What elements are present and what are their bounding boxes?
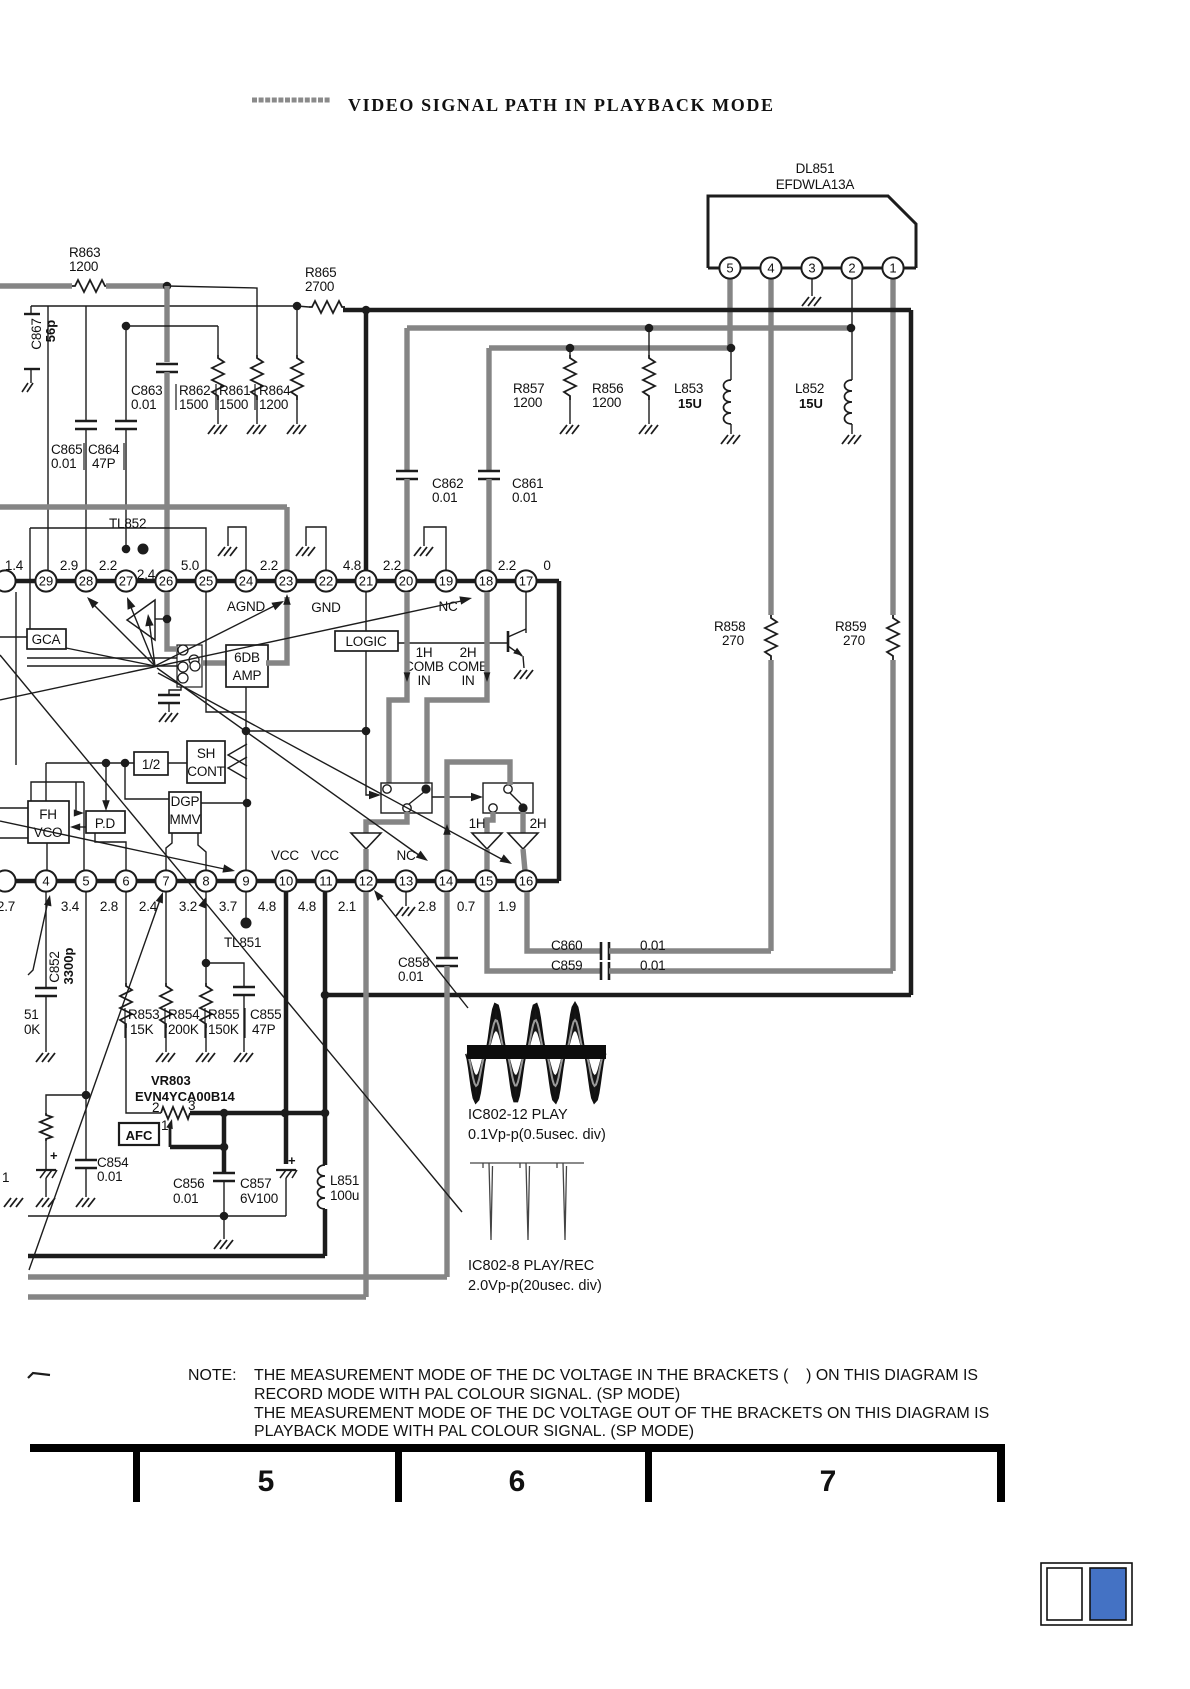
svg-text:3.7: 3.7 bbox=[219, 899, 237, 914]
wire DGP MMV to pin 7 bbox=[166, 833, 172, 871]
wire 1/2 to SH CONT bbox=[168, 762, 187, 764]
gray stub cluster to 6DB AMP bbox=[202, 660, 226, 665]
svg-text:28: 28 bbox=[79, 574, 93, 589]
svg-text:6DB: 6DB bbox=[234, 650, 260, 665]
svg-text:23: 23 bbox=[279, 574, 293, 589]
wire gray pin18 column with C861 bbox=[486, 348, 491, 470]
thick wire down to C856 bbox=[222, 1113, 227, 1172]
zigzag at SH CONT right bbox=[228, 744, 247, 766]
svg-text:R856: R856 bbox=[592, 381, 623, 396]
wire pin11 thick column down bbox=[323, 892, 328, 1165]
wire pin5 long column bbox=[85, 892, 87, 1159]
wire DGP MMV to pin 8 dogleg bbox=[198, 833, 206, 871]
svg-text:THE MEASUREMENT MODE OF THE DC: THE MEASUREMENT MODE OF THE DC VOLTAGE O… bbox=[254, 1405, 989, 1422]
svg-text:VCO: VCO bbox=[34, 825, 63, 840]
pin 25 of TL852 bbox=[195, 570, 216, 591]
svg-text:+: + bbox=[288, 1153, 296, 1168]
thick black bottom-left rail bbox=[28, 1254, 325, 1259]
triangle amp above pin 15 bbox=[472, 833, 502, 849]
node L852 top bbox=[847, 324, 856, 333]
svg-text:DGP: DGP bbox=[171, 794, 200, 809]
gray line2 y348 from pin18 column to L853 bbox=[489, 345, 731, 350]
svg-text:R862: R862 bbox=[179, 383, 210, 398]
svg-text:2.8: 2.8 bbox=[418, 899, 436, 914]
ground below C855 bbox=[234, 1053, 253, 1062]
ground below C856 bbox=[214, 1240, 233, 1249]
svg-text:150K: 150K bbox=[208, 1022, 239, 1037]
node junction at R863 output bbox=[163, 282, 172, 291]
resistor R853 bbox=[120, 983, 132, 1028]
fan arrow to pin 27 bbox=[128, 600, 155, 666]
pin 14 of TL851 bbox=[435, 870, 456, 891]
wire: gray column from C863 to pin 26 bbox=[164, 507, 169, 571]
inductor L851 bbox=[318, 1165, 326, 1209]
wire DGP MMV to dot on pin9 column bbox=[201, 802, 247, 804]
block 1/2 divider box bbox=[134, 752, 168, 775]
waveform photo IC802-12 bbox=[467, 1005, 606, 1101]
svg-text:0.1Vp-p(0.5usec. div): 0.1Vp-p(0.5usec. div) bbox=[468, 1127, 606, 1143]
svg-text:16: 16 bbox=[519, 874, 533, 889]
ground below R856 bbox=[639, 425, 658, 434]
svg-text:2.4: 2.4 bbox=[137, 567, 156, 582]
thick rail from VR803 wiper bbox=[170, 1145, 224, 1150]
up arrow on pin14 riser bbox=[443, 824, 451, 835]
svg-text:R853: R853 bbox=[128, 1007, 159, 1022]
wire pin21 to LOGIC bbox=[365, 592, 367, 631]
block SH CONT box bbox=[187, 741, 225, 783]
wire pin 25 inner column bbox=[206, 592, 246, 712]
arrow to pin 8 on leader bbox=[198, 896, 209, 909]
branch to AFC filter resistor bbox=[46, 1095, 86, 1113]
pin 6 of TL851 bbox=[115, 870, 136, 891]
svg-text:R859: R859 bbox=[835, 619, 866, 634]
svg-text:VIDEO SIGNAL PATH IN PLAYBACK: VIDEO SIGNAL PATH IN PLAYBACK MODE bbox=[348, 95, 775, 115]
wire dot b to DGP MMV bbox=[125, 763, 169, 799]
gray arrowhead into pin 23 bbox=[283, 594, 291, 605]
wire LOGIC to transistor base bbox=[398, 642, 508, 644]
svg-text:0.01: 0.01 bbox=[640, 958, 665, 973]
svg-text:2.1: 2.1 bbox=[338, 899, 356, 914]
electrolytic cap symbol below resistor bbox=[45, 1158, 47, 1170]
svg-text:26: 26 bbox=[159, 574, 173, 589]
resistor R863 bbox=[72, 280, 108, 292]
svg-text:1.9: 1.9 bbox=[498, 899, 516, 914]
svg-text:1200: 1200 bbox=[513, 395, 542, 410]
legend: gray video-path sample line bbox=[252, 98, 330, 103]
svg-text:200K: 200K bbox=[168, 1022, 199, 1037]
svg-text:56p: 56p bbox=[43, 320, 58, 342]
zone scale bar bbox=[30, 1444, 1005, 1452]
svg-text:0.01: 0.01 bbox=[432, 490, 457, 505]
switch SB box bbox=[483, 783, 533, 813]
wire LOGIC down to switch arrow bbox=[366, 651, 376, 795]
wire FH VCO to pin 4 bbox=[46, 843, 48, 871]
gray column pin14 with C858 bbox=[444, 892, 449, 957]
svg-text:1200: 1200 bbox=[592, 395, 621, 410]
capacitor C864 column to pin 27 bbox=[122, 322, 131, 331]
ground at page edge bbox=[4, 1198, 23, 1207]
svg-text:0.01: 0.01 bbox=[97, 1169, 122, 1184]
fan arrow to pin 16 bbox=[158, 673, 507, 862]
node rail pin11 column bbox=[321, 1109, 330, 1118]
pin 4 of DL851 bbox=[760, 257, 781, 278]
wire pin6 down to R853 bbox=[125, 892, 127, 983]
svg-text:IC802-12 PLAY: IC802-12 PLAY bbox=[468, 1107, 568, 1123]
chip outer box bbox=[1041, 1563, 1132, 1625]
6DB AMP block box bbox=[226, 645, 268, 687]
node feeding C855 bbox=[202, 959, 211, 968]
svg-text:C855: C855 bbox=[250, 1007, 281, 1022]
partial pin at page edge bottom row bbox=[0, 870, 16, 891]
wire: thin branch right from junction to R861 column bbox=[167, 286, 257, 355]
thick black right border down bbox=[909, 310, 914, 995]
svg-text:R857: R857 bbox=[513, 381, 544, 396]
pin 13 of TL851 bbox=[395, 870, 416, 891]
svg-text:1200: 1200 bbox=[69, 259, 98, 274]
svg-text:PLAYBACK MODE WITH PAL COLOUR: PLAYBACK MODE WITH PAL COLOUR SIGNAL. (S… bbox=[254, 1423, 694, 1440]
resistor R855 bbox=[205, 963, 207, 983]
ground below C854 bbox=[76, 1198, 95, 1207]
dash mark left margin bbox=[28, 1373, 50, 1378]
triangle amp above pin 12 bbox=[351, 833, 381, 849]
pin 2 of DL851 bbox=[841, 257, 862, 278]
gray drop from bus into pin 23 bbox=[284, 507, 289, 570]
svg-text:5: 5 bbox=[82, 874, 89, 889]
svg-text:R858: R858 bbox=[714, 619, 745, 634]
ground below R862 bbox=[208, 425, 227, 434]
resistor R865 bbox=[309, 301, 345, 313]
pin 9 of TL851 bbox=[235, 870, 256, 891]
wire: DL851 pin4 gray column down to R858 bbox=[768, 279, 773, 615]
LOGIC block box bbox=[335, 631, 398, 651]
svg-text:1200: 1200 bbox=[259, 397, 288, 412]
thin arrow from switch A to switch B bbox=[432, 796, 476, 798]
svg-text:0.01: 0.01 bbox=[131, 397, 156, 412]
svg-text:4.8: 4.8 bbox=[298, 899, 316, 914]
wire pin9 to TL851 test point bbox=[245, 892, 247, 921]
wire gray pin20 column with C862 bbox=[404, 328, 409, 470]
node L853 top bbox=[727, 344, 736, 353]
pin 21 of TL852 bbox=[355, 570, 376, 591]
capacitor C852 bbox=[35, 987, 57, 990]
inductor L852 bbox=[845, 380, 853, 424]
wire node to C855 bbox=[206, 963, 244, 986]
IC right edge bbox=[557, 581, 562, 881]
svg-text:2: 2 bbox=[848, 261, 855, 276]
ground below R861 bbox=[247, 425, 266, 434]
leader GCA to fan point bbox=[66, 648, 155, 666]
svg-text:MMV: MMV bbox=[170, 812, 201, 827]
resistor in AFC filter bbox=[40, 1113, 52, 1141]
svg-text:4: 4 bbox=[42, 874, 49, 889]
wire FH VCO loop over the top bbox=[31, 782, 84, 801]
wire: gray from R863 to junction bbox=[106, 283, 167, 288]
block DGP MMV box bbox=[169, 792, 201, 833]
gray path SB right contact to amp above pin16 bbox=[520, 812, 525, 833]
wire R853 to VR803 terminal 2 bbox=[126, 1028, 161, 1113]
svg-text:L853: L853 bbox=[674, 381, 703, 396]
svg-text:15U: 15U bbox=[799, 396, 823, 411]
svg-text:0.01: 0.01 bbox=[173, 1191, 198, 1206]
pin 19 of TL852 bbox=[435, 570, 456, 591]
node below 6DB AMP bbox=[242, 727, 251, 736]
ground below C852 bbox=[36, 1053, 55, 1062]
pin 29 of TL852 bbox=[35, 570, 56, 591]
svg-text:C854: C854 bbox=[97, 1155, 129, 1170]
thick black bus from R865 to right border bbox=[343, 308, 911, 313]
wire: DL851 pin1 gray column down to R859 bbox=[890, 279, 895, 615]
svg-text:L851: L851 bbox=[330, 1173, 359, 1188]
svg-text:C862: C862 bbox=[432, 476, 463, 491]
transistor Q below pin 17 bbox=[525, 592, 527, 633]
svg-text:4.8: 4.8 bbox=[258, 899, 276, 914]
pin 4 of TL851 bbox=[35, 870, 56, 891]
svg-text:2.2: 2.2 bbox=[383, 558, 401, 573]
leader waveform IC802-12 to pin 12 bbox=[377, 893, 468, 1008]
resistor R856 bbox=[648, 328, 650, 355]
fan arrow to pin 14 bbox=[157, 668, 423, 858]
wire: gray video path into R863 bbox=[0, 283, 72, 288]
leader waveform IC802-8 to pin 8 bbox=[0, 655, 462, 1212]
pin 20 of TL852 bbox=[395, 570, 416, 591]
node junction feeding R864 bbox=[293, 302, 302, 311]
svg-text:1: 1 bbox=[2, 1170, 9, 1185]
svg-text:EFDWLA13A: EFDWLA13A bbox=[776, 177, 855, 192]
waveform photo IC802-8 sync pulses bbox=[470, 1163, 584, 1240]
leader diagonal through fan to pin 18 bbox=[0, 600, 466, 700]
svg-text:RECORD MODE WITH PAL COLOUR SI: RECORD MODE WITH PAL COLOUR SIGNAL. (SP … bbox=[254, 1386, 680, 1403]
label separators bbox=[124, 1008, 126, 1038]
delay line DL851 outline bbox=[708, 196, 916, 268]
pin 16 of TL851 bbox=[515, 870, 536, 891]
capacitor C865 with column from y306 to pin 28 bbox=[85, 306, 87, 420]
partial pin at page edge top row bbox=[0, 570, 16, 591]
wire: thin bus y306 from pin29 column to R865 bbox=[47, 306, 49, 581]
wire into P.D left with arrow bbox=[75, 782, 77, 813]
svg-text:0.7: 0.7 bbox=[457, 899, 475, 914]
svg-text:AGND: AGND bbox=[227, 599, 266, 614]
resistor R854 bbox=[160, 983, 172, 1028]
svg-text:C856: C856 bbox=[173, 1176, 204, 1191]
pin 11 of TL851 bbox=[315, 870, 336, 891]
label separator lines bbox=[83, 443, 85, 470]
ground bracket above pin 22 bbox=[306, 527, 326, 571]
wire 6DB AMP down to dot bbox=[245, 687, 247, 731]
svg-text:25: 25 bbox=[199, 574, 213, 589]
svg-text:0.01: 0.01 bbox=[398, 969, 423, 984]
svg-text:C857: C857 bbox=[240, 1176, 271, 1191]
svg-text:27: 27 bbox=[119, 574, 133, 589]
resistor R862 bbox=[212, 355, 224, 400]
capacitor C867 (page edge) bbox=[24, 313, 40, 315]
pin 5 of TL851 bbox=[75, 870, 96, 891]
arrow on 2H comb input bbox=[484, 672, 491, 682]
ground below R864 bbox=[287, 425, 306, 434]
pin 5 of DL851 bbox=[719, 257, 740, 278]
svg-text:2.2: 2.2 bbox=[498, 558, 516, 573]
svg-text:1500: 1500 bbox=[179, 397, 208, 412]
transistor cluster box (GCA amps) bbox=[177, 645, 202, 687]
gray rail from pin12 column bbox=[363, 892, 368, 1297]
pin 7 of TL851 bbox=[155, 870, 176, 891]
wire dot to ground bbox=[223, 1216, 225, 1239]
gray comb path from pin 18 to switch A bbox=[427, 592, 487, 783]
svg-text:2: 2 bbox=[152, 1100, 159, 1115]
svg-text:21: 21 bbox=[359, 574, 373, 589]
svg-text:13: 13 bbox=[399, 874, 413, 889]
inductor L853 bbox=[730, 348, 732, 380]
svg-text:C865: C865 bbox=[51, 442, 82, 457]
svg-text:VR803: VR803 bbox=[151, 1073, 191, 1088]
svg-text:R863: R863 bbox=[69, 245, 100, 260]
arrow on 1H comb input bbox=[404, 672, 411, 682]
wire horizontal y731 bbox=[246, 730, 366, 732]
svg-text:51: 51 bbox=[24, 1007, 39, 1022]
svg-text:2H: 2H bbox=[460, 645, 477, 660]
svg-text:NC: NC bbox=[438, 599, 458, 614]
wire pin9 column through IC bbox=[245, 731, 247, 803]
svg-text:47P: 47P bbox=[92, 456, 116, 471]
svg-text:5: 5 bbox=[726, 261, 733, 276]
svg-text:8: 8 bbox=[202, 874, 209, 889]
svg-text:THE MEASUREMENT MODE OF THE DC: THE MEASUREMENT MODE OF THE DC VOLTAGE I… bbox=[254, 1367, 978, 1384]
gray bus above IC top edge bbox=[0, 504, 287, 509]
svg-text:29: 29 bbox=[39, 574, 53, 589]
svg-text:GND: GND bbox=[311, 600, 341, 615]
thick rail VR803 term3 to pin11 column bbox=[190, 1111, 325, 1116]
switch SA box bbox=[381, 783, 432, 813]
VR803 wiper arrow bbox=[169, 1126, 172, 1147]
svg-text:2.4: 2.4 bbox=[139, 899, 158, 914]
svg-text:17: 17 bbox=[519, 574, 533, 589]
arrow P.D to FH VCO bbox=[75, 826, 86, 828]
leader from page edge to pin 9 bbox=[0, 821, 229, 870]
ground bracket above pin 19 bbox=[424, 527, 446, 571]
svg-text:CONT: CONT bbox=[187, 764, 224, 779]
triangle amp below pin 27 bbox=[127, 600, 155, 640]
wire pin25 up and left bbox=[30, 528, 206, 571]
svg-text:LOGIC: LOGIC bbox=[345, 634, 386, 649]
zone tick 2 bbox=[395, 1444, 402, 1502]
zone tick 3 bbox=[645, 1444, 652, 1502]
wire pin 5 riser bbox=[83, 782, 85, 871]
wire node to amp triangle bbox=[155, 618, 167, 620]
pin 1 of DL851 bbox=[882, 257, 903, 278]
svg-text:24: 24 bbox=[239, 574, 253, 589]
svg-text:2.2: 2.2 bbox=[260, 558, 278, 573]
svg-text:15U: 15U bbox=[678, 396, 702, 411]
pin 22 of TL852 bbox=[315, 570, 336, 591]
node at pin11 column and bottom bus bbox=[321, 991, 330, 1000]
svg-text:VCC: VCC bbox=[271, 848, 299, 863]
svg-text:R864: R864 bbox=[259, 383, 291, 398]
node on LOGIC column bbox=[362, 727, 371, 736]
pin 10 of TL851 bbox=[275, 870, 296, 891]
svg-text:270: 270 bbox=[722, 633, 744, 648]
svg-text:22: 22 bbox=[319, 574, 333, 589]
svg-text:47P: 47P bbox=[252, 1022, 276, 1037]
svg-text:7: 7 bbox=[820, 1465, 837, 1498]
svg-text:+: + bbox=[50, 1148, 58, 1163]
svg-text:0: 0 bbox=[543, 558, 550, 573]
svg-text:R854: R854 bbox=[168, 1007, 200, 1022]
test point TL851 dot bbox=[241, 918, 252, 929]
svg-text:1H: 1H bbox=[416, 645, 433, 660]
svg-text:COMB: COMB bbox=[448, 659, 488, 674]
pin 12 of TL851 bbox=[355, 870, 376, 891]
pin 27 of TL852 bbox=[115, 570, 136, 591]
svg-text:AFC: AFC bbox=[126, 1128, 153, 1143]
wire: thick black down to pin 21 bbox=[364, 310, 369, 571]
svg-text:IC802-8 PLAY/REC: IC802-8 PLAY/REC bbox=[468, 1258, 594, 1274]
gray rail C859 from pin 15 bbox=[487, 892, 600, 971]
svg-text:3.2: 3.2 bbox=[179, 899, 197, 914]
gray 6DB AMP output up to pin 23 bbox=[266, 597, 287, 663]
resistor R859 bbox=[887, 615, 899, 660]
wire pin7 down to R854 bbox=[165, 892, 167, 983]
gray pin 26 column into cluster bbox=[167, 592, 177, 649]
svg-text:6V100: 6V100 bbox=[240, 1191, 278, 1206]
chip blue square bbox=[1090, 1568, 1126, 1620]
node dot a bbox=[102, 759, 111, 768]
svg-text:0.01: 0.01 bbox=[51, 456, 76, 471]
svg-text:IN: IN bbox=[461, 673, 474, 688]
wire: DL851 pin3 to ground bbox=[811, 279, 813, 296]
svg-text:1: 1 bbox=[161, 1118, 168, 1133]
svg-text:14: 14 bbox=[439, 874, 453, 889]
pin 26 of TL852 bbox=[155, 570, 176, 591]
svg-text:C859: C859 bbox=[551, 958, 582, 973]
node dots above pin 27 bbox=[122, 545, 131, 554]
svg-text:2H: 2H bbox=[530, 816, 547, 831]
svg-text:C852: C852 bbox=[47, 951, 62, 982]
block FH VCO box bbox=[28, 801, 69, 843]
svg-text:5.0: 5.0 bbox=[181, 558, 199, 573]
ground below pin 13 bbox=[405, 892, 407, 906]
ground below DL851 pin3 bbox=[802, 297, 821, 306]
svg-text:1H: 1H bbox=[469, 816, 486, 831]
svg-text:15: 15 bbox=[479, 874, 493, 889]
svg-text:2.2: 2.2 bbox=[99, 558, 117, 573]
svg-text:100u: 100u bbox=[330, 1188, 359, 1203]
svg-text:IN: IN bbox=[417, 673, 430, 688]
node R857 top bbox=[566, 344, 575, 353]
pin 15 of TL851 bbox=[475, 870, 496, 891]
leader to pin 4 bbox=[28, 901, 48, 975]
ground below cluster cap bbox=[159, 713, 178, 722]
chip white square bbox=[1047, 1568, 1082, 1620]
svg-text:R855: R855 bbox=[208, 1007, 239, 1022]
pin 23 of TL852 bbox=[275, 570, 296, 591]
resistor R861 bbox=[251, 355, 263, 400]
svg-text:1.4: 1.4 bbox=[5, 558, 24, 573]
capacitor C856 bbox=[213, 1172, 235, 1175]
stub wires page edge to FH VCO bbox=[0, 807, 28, 809]
svg-text:COMB: COMB bbox=[404, 659, 444, 674]
svg-text:C863: C863 bbox=[131, 383, 162, 398]
wire gray R859 bottom to C859 rail bbox=[890, 660, 895, 971]
svg-text:2700: 2700 bbox=[305, 279, 334, 294]
svg-text:R861: R861 bbox=[219, 383, 250, 398]
svg-text:2.7: 2.7 bbox=[0, 899, 15, 914]
pin 3 of DL851 bbox=[801, 257, 822, 278]
pin 24 of TL852 bbox=[235, 570, 256, 591]
svg-text:2.9: 2.9 bbox=[60, 558, 78, 573]
svg-text:VCC: VCC bbox=[311, 848, 339, 863]
resistor R858 bbox=[765, 615, 777, 660]
svg-text:C858: C858 bbox=[398, 955, 429, 970]
node on pin26 inner column bbox=[163, 615, 172, 624]
